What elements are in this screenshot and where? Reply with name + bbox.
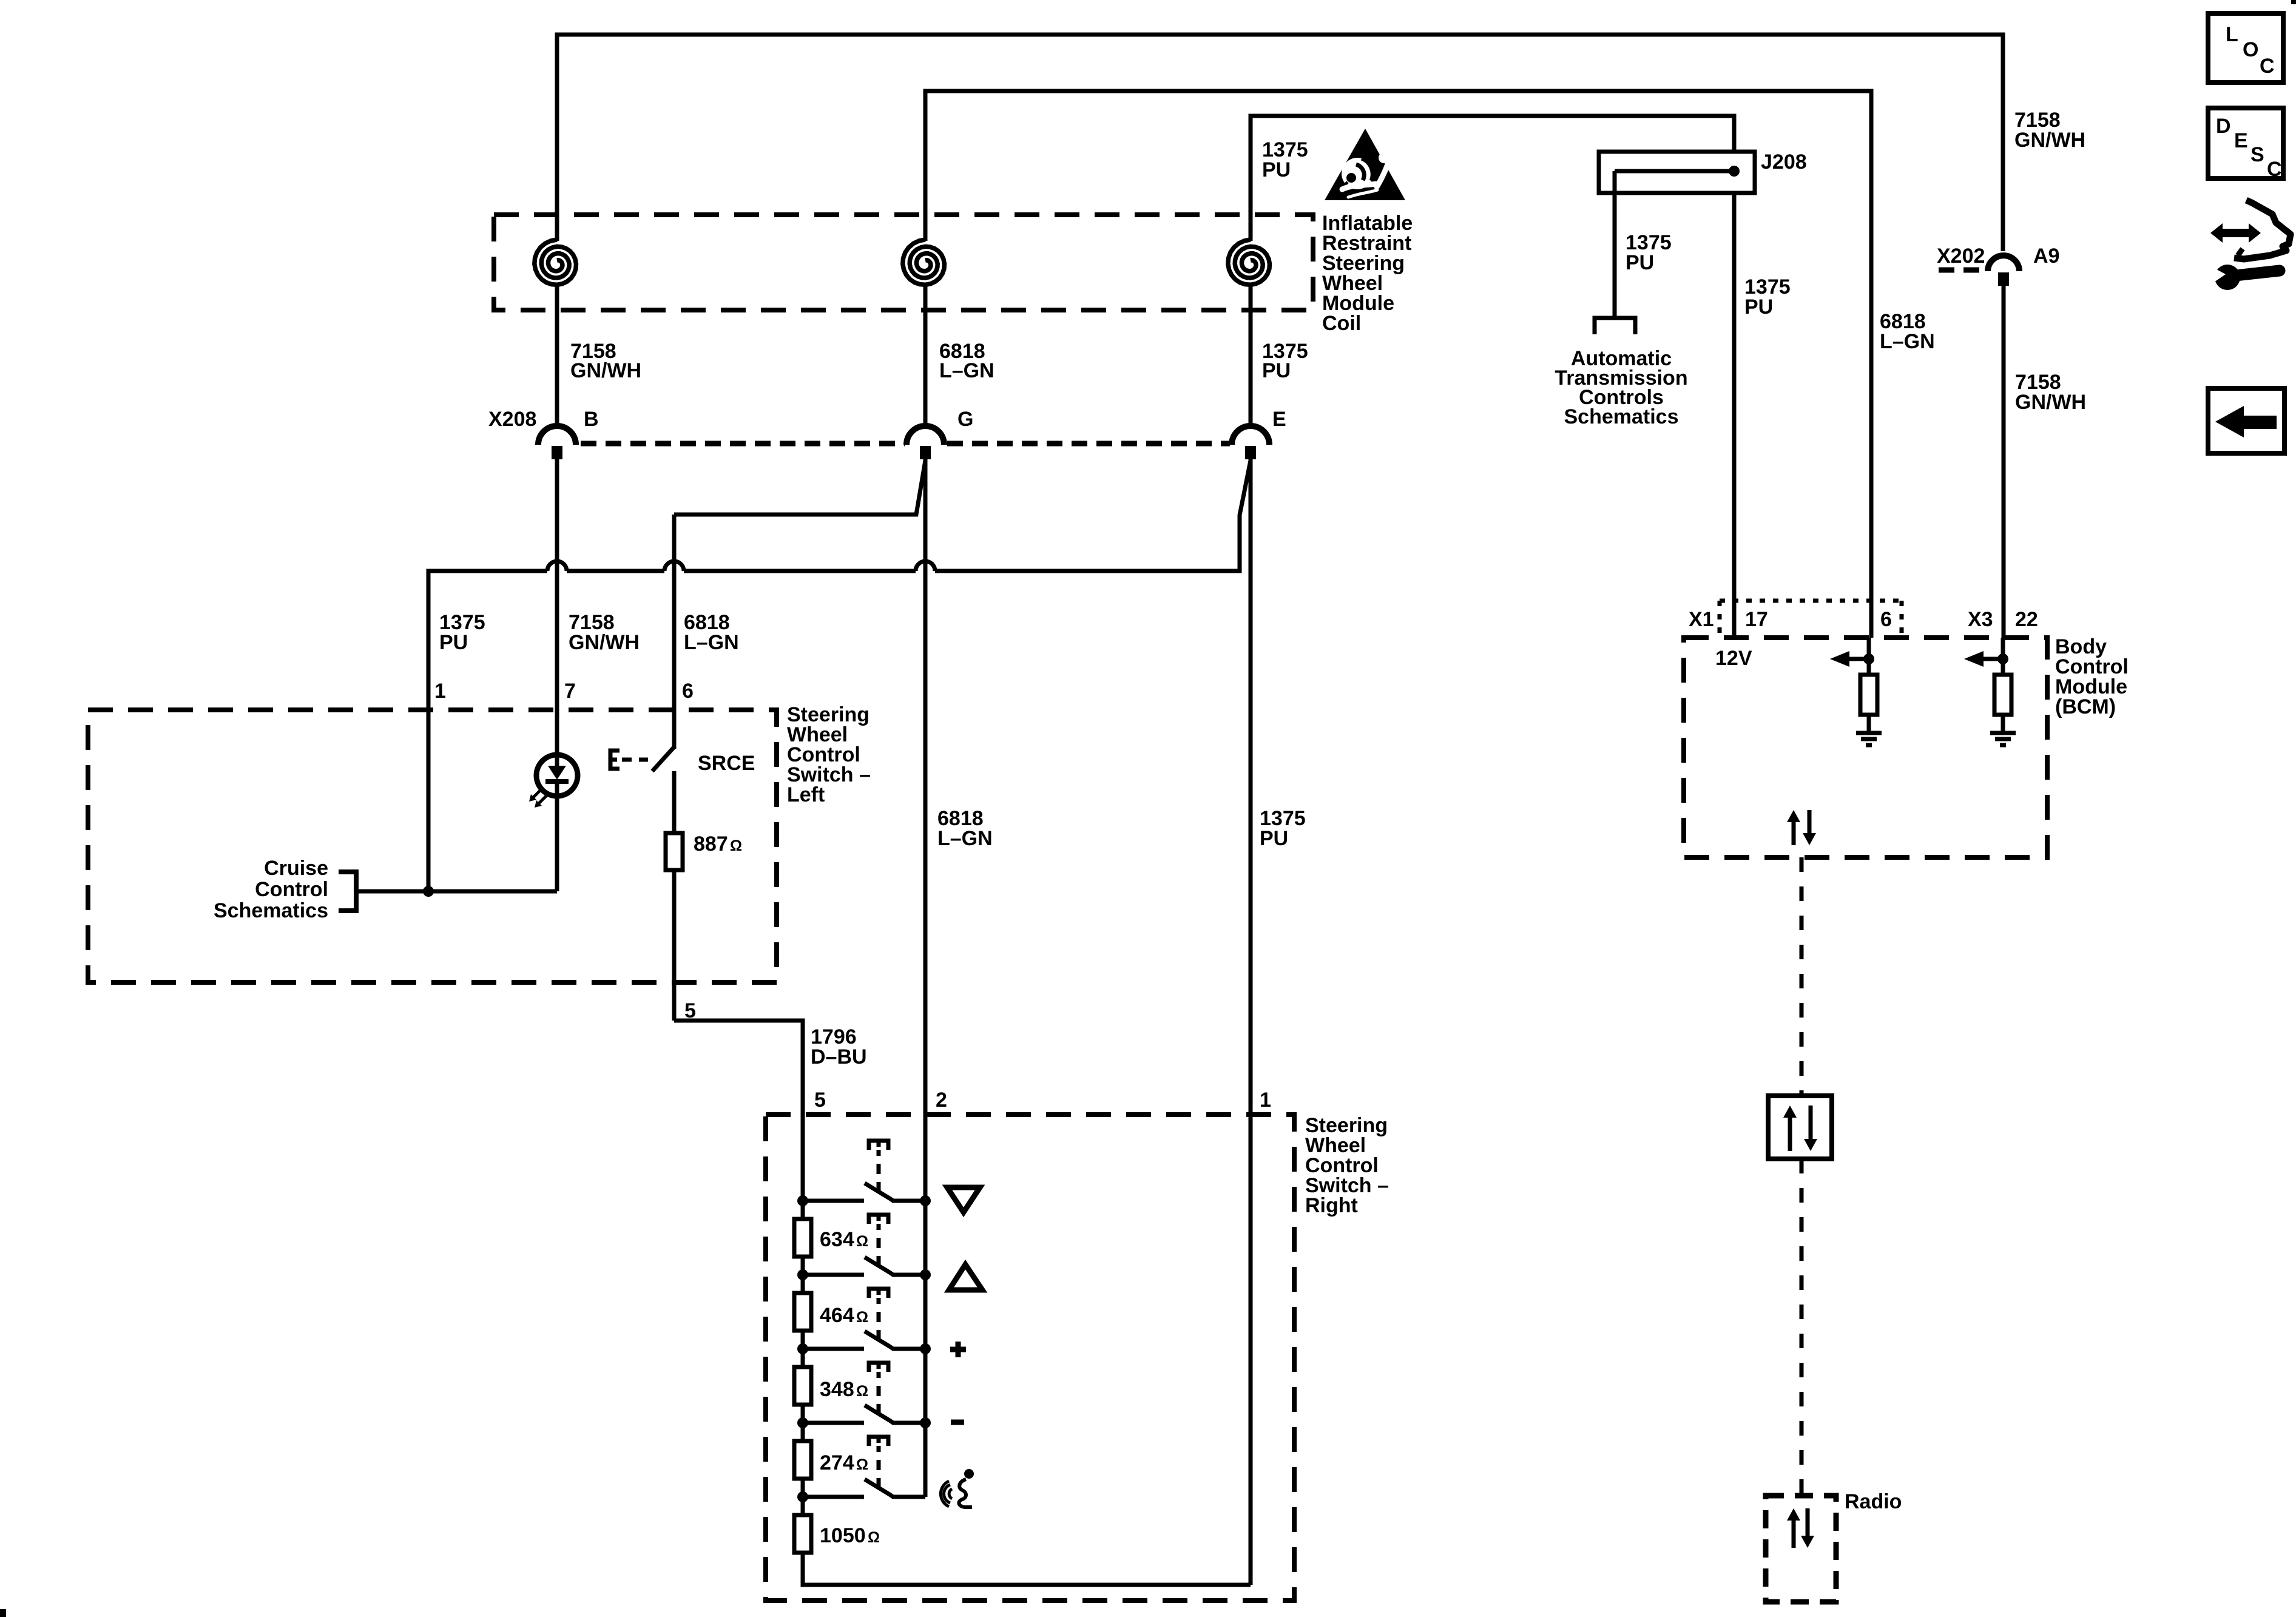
wire cruise reference [356,890,557,894]
svg-text:C: C [2260,55,2275,78]
svg-text:A9: A9 [2033,245,2059,268]
svg-text:Ω: Ω [856,1309,868,1326]
label 6818 L-GN (wire 6) [684,611,739,654]
icon volume plus [950,1342,966,1357]
label 1375 PU (wire 1) [439,611,485,654]
BCM pullup resistor (pin 6) [1860,675,1877,715]
label J208 [1761,150,1807,174]
wire 6818 L-GN branch (G to left switch pin 6) [674,461,925,749]
label pin 1 (right switch) [1260,1089,1271,1112]
label X1 [1689,608,1714,631]
airbag warning triangle icon [1325,129,1405,200]
svg-text:E: E [1272,408,1286,431]
resistor 348 ohm [794,1367,811,1405]
svg-text:Radio: Radio [1845,1490,1902,1513]
switch row 5 (right switch) [797,1437,925,1502]
BCM label [2055,635,2129,718]
svg-text:GN/WH: GN/WH [569,631,640,654]
label 6818 L-GN (below coil G) [939,340,994,382]
label 6818 L-GN (wire to pin 2) [937,807,993,850]
label 274 ohm [820,1451,868,1474]
svg-text:X208: X208 [488,408,536,431]
wire 7158 GN/WH (X202 to BCM pin 22) [2002,286,2006,638]
svg-text:PU: PU [439,631,468,654]
label pin 5 (left switch) [684,999,696,1022]
svg-text:B: B [584,408,599,431]
connector X1 dotted outline [1720,601,1902,638]
wire 1375 PU (E down to right switch pin 1) [1249,459,1253,1585]
svg-text:GN/WH: GN/WH [2014,129,2085,152]
cruise control schematics label [214,857,328,922]
switch row 1 (right switch) [797,1141,931,1206]
label pin 5 (right switch) [814,1089,826,1112]
label pin B [584,408,599,431]
label 7158 GN/WH (lower) [2015,371,2086,414]
junction wire1/cruise [423,886,434,897]
label 1375 PU (above coil E) [1262,138,1308,181]
coil box label [1322,212,1413,335]
label pin 6 [1880,608,1892,631]
svg-text:17: 17 [1745,608,1768,631]
svg-text:(BCM): (BCM) [2055,695,2116,718]
coil G (6818) [903,240,945,427]
svg-text:S: S [2250,143,2264,166]
BCM serial data arrows [1787,810,1816,845]
label Radio [1845,1490,1902,1513]
label 7158 GN/WH (wire 7) [569,611,640,654]
automatic transmission controls schematics label [1555,347,1687,428]
icon voice recognition [940,1469,974,1507]
label pin E [1272,408,1286,431]
right switch box label [1305,1114,1389,1217]
Steering Wheel Control Switch Right dashed box [766,1115,1294,1601]
switch row 3 (right switch) [797,1289,931,1354]
wire 1375 PU (J208 to BCM pin 17) [1732,193,1737,638]
label pin 17 [1745,608,1768,631]
svg-text:1050: 1050 [820,1524,866,1547]
connector X208 dashed line [581,441,1230,447]
svg-text:X3: X3 [1968,608,1993,631]
Body Control Module dashed box [1684,638,2047,857]
svg-text:22: 22 [2015,608,2038,631]
connector X208 pin B [538,426,576,459]
svg-text:E: E [2234,129,2248,152]
icon seek down [947,1187,980,1212]
label X3 [1968,608,1993,631]
svg-text:5: 5 [814,1089,826,1112]
coil E (1375) [1228,240,1270,427]
svg-text:PU: PU [1262,359,1291,382]
resistor 1050 ohm [794,1515,811,1553]
wire 7158 GN/WH top run (coil B to X202) [557,35,2003,251]
svg-text:1: 1 [1260,1089,1271,1112]
svg-text:L–GN: L–GN [684,631,739,654]
svg-text:Schematics: Schematics [1564,405,1679,428]
label SRCE [698,752,755,775]
radio serial data arrows [1787,1508,1814,1548]
wire 6818 L-GN (G down to right switch pin 2) [923,459,928,1497]
splice pack J208 internal bus [1615,166,1740,177]
svg-text:Ω: Ω [856,1383,868,1400]
svg-text:634: 634 [820,1228,854,1251]
page mark bottom left [0,1609,6,1617]
cruise control schematics bracket [339,872,356,911]
connector X202 dashed line [1939,268,1986,273]
resistor 274 ohm [794,1441,811,1479]
LED indicator (cruise on lamp) [529,755,578,808]
svg-text:Ω: Ω [730,837,742,854]
svg-text:SRCE: SRCE [698,752,755,775]
wire 7158 GN/WH (B to LED) [555,459,559,756]
svg-text:PU: PU [1626,251,1654,274]
label pin 22 [2015,608,2038,631]
svg-text:PU: PU [1260,827,1288,850]
left switch box label [787,703,871,806]
icon volume minus [951,1420,964,1425]
svg-text:1: 1 [434,680,446,703]
serial data wire (BCM to gateway) [1800,857,1804,1096]
coil B (7158) [535,240,576,427]
label 887 ohm [694,832,742,856]
wire 1796 D-BU (to right switch pin 5) [674,1021,803,1219]
svg-text:274: 274 [820,1451,854,1474]
svg-text:Cruise: Cruise [264,857,328,880]
switch row 4 (right switch) [797,1363,931,1428]
label 7158 GN/WH (top) [2014,109,2085,152]
resistor 887 ohm [666,833,683,870]
svg-text:X202: X202 [1937,245,1985,268]
svg-text:C: C [2267,158,2282,181]
label 1375 PU (below coil E) [1262,340,1308,382]
wire 1375 PU bus (to left switch pin 1) [428,561,1240,891]
svg-text:6: 6 [682,680,694,703]
svg-text:PU: PU [1744,295,1773,319]
wire 1375 PU branch (E to bus corner) [1240,461,1251,569]
icon LOC box [2208,13,2283,83]
wire 6818 L-GN top run (coil G to BCM pin 6) [925,91,1871,638]
connector X202 pin A9 [1988,255,2019,286]
BCM pullup resistor (pin 22) [1994,675,2011,715]
splice pack J208 box [1599,152,1755,193]
wire 6 below SRCE [672,771,677,833]
svg-text:Right: Right [1305,1194,1358,1217]
svg-text:Ω: Ω [868,1529,880,1546]
svg-text:L: L [2226,23,2238,46]
left bus and bottom wire (right switch) [803,1257,1251,1585]
Radio dashed box [1766,1496,1836,1602]
serial data wire (gateway to radio) [1800,1159,1804,1496]
svg-text:887: 887 [694,832,728,856]
svg-text:J208: J208 [1761,150,1807,174]
svg-text:Ω: Ω [856,1456,868,1473]
wire 1375 PU top run (coil E to J208) [1251,116,1734,241]
label A9 [2033,245,2059,268]
wire 6818/pin5 (887 ohm to box edge) [672,870,677,1021]
icon seek up [949,1264,982,1290]
svg-text:464: 464 [820,1304,854,1327]
label pin 6 (left switch) [682,680,694,703]
svg-text:X1: X1 [1689,608,1714,631]
svg-text:Left: Left [787,783,825,806]
svg-text:Control: Control [255,878,328,901]
label 1375 PU (BCM wire) [1744,275,1791,319]
label 634 ohm [820,1228,868,1251]
label pin G [957,408,973,431]
svg-text:6: 6 [1880,608,1892,631]
svg-text:Schematics: Schematics [214,899,328,922]
label 1375 PU (stub) [1626,231,1672,274]
connector X208 pin G [907,426,944,459]
resistor 634 ohm [794,1219,811,1257]
svg-text:Ω: Ω [856,1233,868,1250]
svg-text:2: 2 [936,1089,947,1112]
svg-text:7: 7 [564,680,576,703]
serial data gateway box [1768,1096,1832,1159]
label pin 7 (left switch) [564,680,576,703]
svg-text:O: O [2243,38,2258,61]
ground (BCM pin 6) [1856,715,1882,745]
wire 1375 PU (J208 to transmission stub) [1595,171,1635,334]
svg-text:GN/WH: GN/WH [2015,391,2086,414]
svg-text:348: 348 [820,1378,854,1401]
label X208 [488,408,536,431]
svg-text:12V: 12V [1715,647,1752,670]
label 1796 D-BU [811,1025,867,1068]
label 6818 L-GN (BCM wire) [1880,310,1935,353]
label X202 [1937,245,1985,268]
label pin 1 (left switch) [434,680,446,703]
label 348 ohm [820,1378,868,1401]
ground (BCM pin 22) [1990,715,2016,745]
BCM input arrow (pin 22) [1964,638,2008,675]
svg-text:L–GN: L–GN [939,359,994,382]
label pin 2 (right switch) [936,1089,947,1112]
Steering Wheel Control Switch Left dashed box [88,710,777,982]
switch SRCE actuator and blade [610,746,675,771]
wire 7 below LED [555,796,559,891]
label 1375 PU (wire to pin 1) [1260,807,1306,850]
svg-text:PU: PU [1262,158,1291,181]
label 7158 GN/WH (below coil B) [570,340,641,382]
Inflatable Restraint Steering Wheel Module Coil dashed box [494,215,1313,310]
svg-text:GN/WH: GN/WH [570,359,641,382]
label 464 ohm [820,1304,868,1327]
page mark top right [2291,0,2296,4]
svg-text:Coil: Coil [1322,312,1361,335]
connector X208 pin E [1232,426,1269,459]
resistor 464 ohm [794,1293,811,1331]
label 1050 ohm [820,1524,880,1547]
BCM input arrow (pin 6) [1830,638,1874,675]
svg-text:D: D [2216,115,2231,138]
label 12V [1715,647,1752,670]
svg-text:G: G [957,408,973,431]
switch row 2 (right switch) [797,1215,931,1280]
svg-text:L–GN: L–GN [1880,330,1935,353]
svg-text:D–BU: D–BU [811,1045,867,1068]
svg-text:L–GN: L–GN [937,827,993,850]
icon schematic navigation [2207,200,2291,290]
icon back arrow box [2208,388,2284,453]
icon DESC box [2208,108,2283,181]
